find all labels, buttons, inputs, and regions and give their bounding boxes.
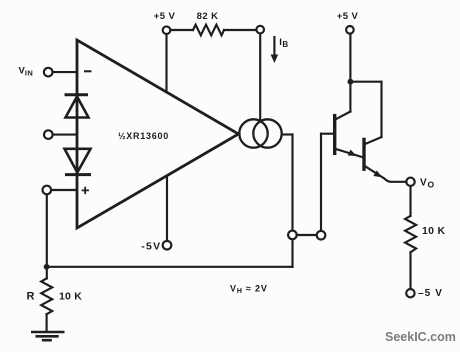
transistor Q2 emitter xyxy=(364,166,406,182)
wire resistor to ground xyxy=(46,314,48,331)
wire plus terminal down to junction xyxy=(46,194,48,278)
current mirror circle left xyxy=(239,119,267,147)
wire node A to node B xyxy=(297,234,317,236)
terminal node A circle xyxy=(288,231,297,240)
transistor Q1 emitter xyxy=(335,149,363,158)
arrow IB xyxy=(273,37,275,56)
resistor R zigzag xyxy=(41,278,52,314)
current mirror circle right xyxy=(253,119,281,147)
wire junction right xyxy=(350,81,381,83)
transistor Q1 base bar xyxy=(333,116,336,154)
wire +5V to resistor 82K xyxy=(171,29,194,31)
transistor Q1 collector xyxy=(335,112,351,120)
svg-text:+5 V: +5 V xyxy=(337,11,359,22)
wire resistor to node circle xyxy=(224,29,256,31)
terminal -5V op-amp circle xyxy=(163,241,172,250)
wire +5V down to collector junction xyxy=(349,34,351,112)
diode D2 triangle xyxy=(65,149,91,173)
junction dot left xyxy=(44,264,50,270)
terminal diode midpoint circle xyxy=(44,130,53,139)
inverting input minus sign xyxy=(85,70,91,72)
terminal +5V left circle xyxy=(163,26,171,34)
svg-text:-5V: -5V xyxy=(141,240,161,252)
ground xyxy=(32,332,63,340)
op-amp U1 half XR13600 xyxy=(77,40,239,228)
wire node A down to feedback line xyxy=(291,239,293,266)
junction dot right supply xyxy=(348,79,354,85)
transistor Q2 collector xyxy=(364,137,382,145)
svg-text:10 K: 10 K xyxy=(422,225,445,237)
wire node B up to Q1 base xyxy=(320,134,322,231)
terminal VO circle xyxy=(406,178,414,186)
wire node down to current mirror xyxy=(259,34,261,121)
transistor Q2 base bar xyxy=(362,139,365,169)
wire VIN to op-amp xyxy=(53,71,76,73)
svg-text:SeekIC.com: SeekIC.com xyxy=(385,330,456,344)
diode D1 cathode bar xyxy=(66,93,87,96)
wire feedback horizontal xyxy=(47,266,293,268)
terminal -5V right circle xyxy=(406,289,414,297)
terminal VIN circle xyxy=(44,68,53,77)
noninverting input plus sign xyxy=(83,188,89,194)
wire mirror output right xyxy=(282,133,293,135)
resistor 10K right zigzag xyxy=(405,216,416,252)
wire VO down to 10K xyxy=(409,186,411,216)
svg-text:10 K: 10 K xyxy=(59,291,82,303)
wire down to Q2 collector xyxy=(380,82,382,137)
resistor R82K zigzag xyxy=(193,25,224,36)
terminal +5V right circle xyxy=(346,26,354,34)
diode D2 cathode bar xyxy=(67,173,90,176)
svg-text:R: R xyxy=(27,291,35,303)
svg-text:82 K: 82 K xyxy=(197,11,219,22)
terminal node circle right of 82K xyxy=(256,26,264,34)
terminal node B circle xyxy=(317,231,326,240)
terminal plus-input circle xyxy=(43,186,52,195)
svg-text:+5 V: +5 V xyxy=(154,11,176,22)
svg-text:–5 V: –5 V xyxy=(418,288,443,299)
wire -5V from op-amp bottom edge xyxy=(166,176,168,241)
wire to Q1 base bar xyxy=(321,133,334,135)
wire mirror output down to node A xyxy=(291,135,293,231)
wire 10K down to -5V xyxy=(409,252,411,289)
svg-text:½XR13600: ½XR13600 xyxy=(118,131,169,141)
svg-text:VO: VO xyxy=(420,178,434,190)
diode D1 triangle xyxy=(66,97,89,118)
wire +5V down to op-amp top edge xyxy=(165,34,167,92)
wire plus terminal to op-amp xyxy=(51,189,76,191)
wire midpoint terminal to diode chain xyxy=(53,134,76,136)
